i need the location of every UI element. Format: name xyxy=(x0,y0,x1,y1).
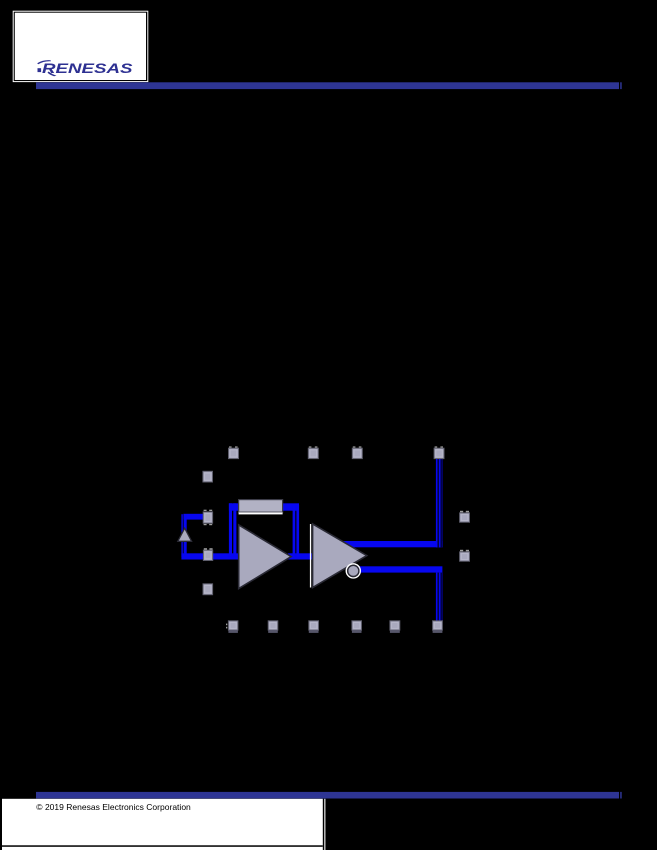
svg-text:RENESAS: RENESAS xyxy=(42,60,133,76)
svg-text:© 2019 Renesas Electronics Cor: © 2019 Renesas Electronics Corporation xyxy=(36,803,191,812)
